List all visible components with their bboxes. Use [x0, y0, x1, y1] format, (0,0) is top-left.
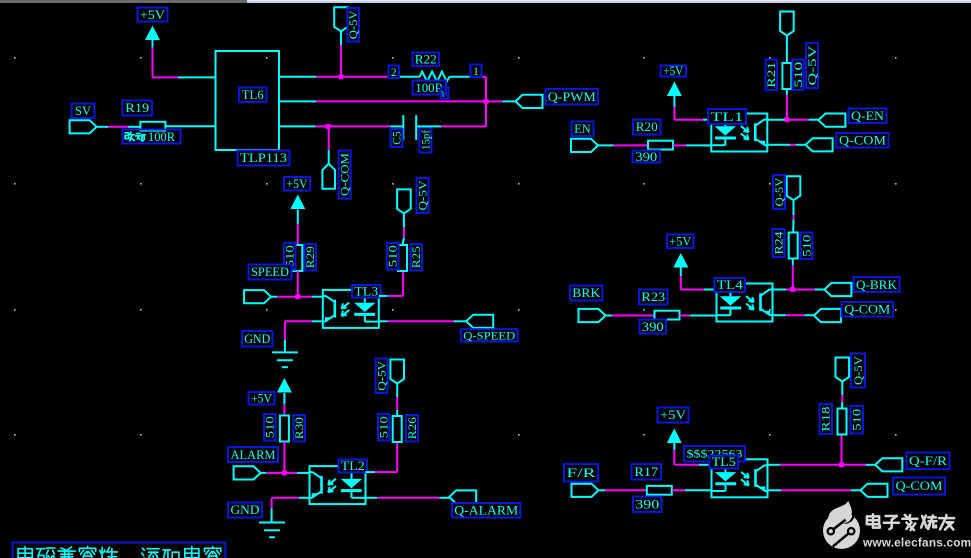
- svg-text:Q-5V: Q-5V: [853, 355, 865, 385]
- label +5V (TL3): [284, 177, 310, 191]
- junction R29: [295, 294, 300, 299]
- svg-text:+5V: +5V: [251, 392, 272, 406]
- label R30: [294, 415, 307, 442]
- port SV: [70, 120, 97, 133]
- svg-text:510: 510: [265, 416, 277, 438]
- label TLP113: [238, 151, 290, 166]
- window edge top strip: [0, 0, 247, 3]
- label TL1: [708, 109, 746, 124]
- port Q-EN: [818, 114, 845, 127]
- port BRK: [579, 309, 606, 322]
- svg-text:Q-5V: Q-5V: [774, 177, 786, 207]
- wire +5V to TL1: [674, 96, 711, 120]
- label $$$22563: [684, 446, 745, 462]
- svg-text:Q-5V: Q-5V: [376, 360, 388, 391]
- svg-text:TL5: TL5: [712, 455, 736, 469]
- label SV: [72, 104, 95, 119]
- label GND (TL3): [242, 331, 273, 347]
- svg-text:Q-5V: Q-5V: [348, 10, 360, 40]
- wire TL3 out to Q-SPEED: [379, 320, 466, 322]
- svg-text:F/R: F/R: [567, 466, 597, 480]
- label +5V (TL1): [661, 64, 687, 78]
- svg-text:R30: R30: [294, 417, 306, 439]
- resistor R25: [398, 245, 407, 271]
- label Q-5V (TL4): [773, 175, 786, 209]
- junction R30: [282, 470, 287, 475]
- resistor R20: [648, 141, 673, 150]
- label R19: [123, 101, 153, 116]
- junction R21: [784, 117, 789, 122]
- label R29: [305, 244, 318, 271]
- value 510 (R29): [284, 243, 297, 270]
- label Q-PWM: [546, 89, 599, 105]
- svg-text:+5V: +5V: [663, 64, 683, 78]
- label Q-SPEED: [461, 328, 518, 342]
- svg-text:510: 510: [379, 416, 391, 438]
- wire to C5: [328, 125, 403, 127]
- port Q-COM (TL5): [861, 484, 888, 497]
- svg-text:Q-COM: Q-COM: [844, 303, 890, 317]
- svg-text:390: 390: [642, 320, 664, 334]
- svg-text:TL2: TL2: [341, 459, 365, 473]
- power flag Q-5V (TL4): [787, 176, 801, 232]
- svg-text:510: 510: [852, 408, 864, 430]
- label +5V (TL6): [138, 8, 168, 22]
- svg-text:www.elecfans.com: www.elecfans.com: [862, 536, 971, 550]
- label R24: [773, 229, 786, 257]
- label C5: [391, 129, 404, 147]
- svg-text:Q-BRK: Q-BRK: [856, 278, 897, 292]
- junction Q-5V net: [339, 74, 344, 79]
- power +5V (TL5): [667, 429, 682, 444]
- svg-text:+5V: +5V: [140, 8, 165, 22]
- svg-text:R18: R18: [821, 406, 833, 431]
- port Q-COM (TL1): [806, 138, 833, 151]
- wire ALARM to TL2: [261, 472, 310, 474]
- label TL2: [339, 459, 368, 473]
- wire F/R to R17: [599, 489, 647, 491]
- wire R25 to TL3: [379, 271, 403, 296]
- label Q-COM (TL5): [893, 478, 945, 495]
- opto-coupler TL4: [717, 284, 773, 322]
- label R21: [766, 60, 779, 91]
- wire TL4 emitter out: [773, 314, 814, 316]
- pin 2 label: [389, 65, 400, 79]
- note 电磁兼容性 添加电容: [12, 543, 225, 558]
- label TL3: [352, 285, 381, 299]
- value 改动100R: [123, 130, 181, 145]
- wire TL4 collector out: [773, 289, 825, 291]
- label ALARM: [228, 447, 278, 462]
- svg-text:R20: R20: [636, 120, 658, 134]
- resistor R29: [293, 245, 302, 271]
- label +5V (TL4): [667, 235, 694, 249]
- junction R24: [790, 287, 795, 292]
- resistor R17: [647, 486, 672, 495]
- port Q-ALARM: [449, 490, 476, 503]
- svg-text:R21: R21: [766, 61, 778, 87]
- wire TL5 collector out: [768, 464, 876, 466]
- value 390 (R20): [633, 150, 661, 164]
- label Q-COM (TL6): [339, 151, 352, 199]
- label TL5: [710, 455, 739, 469]
- svg-text:Q-5V: Q-5V: [417, 180, 429, 211]
- svg-text:390: 390: [635, 498, 659, 512]
- power +5V (TL6): [145, 26, 160, 41]
- watermark logo elecfans: [823, 501, 860, 549]
- ground (TL3): [272, 352, 298, 367]
- svg-text:100R: 100R: [148, 130, 176, 144]
- wire TL3 to GND: [285, 321, 323, 352]
- wire R26 to TL2: [366, 442, 398, 472]
- watermark text 电子发烧友: [867, 514, 954, 530]
- resistor R21: [782, 36, 791, 120]
- label R17: [632, 464, 662, 480]
- wire +5V to R29: [297, 210, 299, 246]
- svg-text:+5V: +5V: [669, 235, 691, 249]
- wire R30 down: [283, 442, 285, 473]
- label Q-F/R: [907, 453, 950, 470]
- power flag Q-5V (TL3): [397, 189, 411, 245]
- wire TL6 pin top right: [279, 76, 341, 78]
- port Q-BRK: [824, 283, 851, 296]
- svg-text:R17: R17: [634, 465, 658, 479]
- resistor R26: [393, 416, 402, 442]
- svg-text:TL6: TL6: [242, 88, 264, 102]
- resistor R24: [789, 233, 798, 290]
- svg-text:GND: GND: [231, 503, 260, 517]
- svg-text:TL1: TL1: [711, 110, 744, 124]
- wire TL1 collector out: [767, 119, 818, 121]
- junction PWM net: [484, 99, 489, 104]
- wire TL5 emitter out: [768, 489, 861, 491]
- wire +5V to TL5: [674, 443, 711, 465]
- value 390 (R17): [633, 497, 662, 513]
- wire R19 to TL6: [166, 125, 216, 127]
- port EN: [571, 139, 598, 152]
- value 510 (R24): [801, 233, 814, 260]
- svg-text:ALARM: ALARM: [231, 448, 276, 462]
- svg-text:Q-COM: Q-COM: [340, 153, 352, 196]
- wire R22 to node 1: [449, 76, 486, 78]
- svg-text:Q-COM: Q-COM: [896, 479, 943, 493]
- value 390 (R23): [640, 320, 667, 334]
- label Q-5V (TL2): [376, 359, 389, 394]
- wire EN to R20: [598, 144, 648, 146]
- capacitor C5: [403, 115, 416, 140]
- svg-text:R22: R22: [415, 53, 437, 67]
- value 510 (R21): [793, 60, 805, 91]
- port Q-PWM: [516, 95, 543, 108]
- op-amp U TL6 body: [216, 51, 280, 150]
- label Q-5V (TL3): [417, 178, 430, 213]
- label TL6: [239, 88, 267, 103]
- svg-text:TL3: TL3: [354, 285, 378, 299]
- svg-text:R24: R24: [773, 231, 785, 254]
- wire +5V to TL6 pin: [153, 40, 216, 77]
- svg-text:15pf: 15pf: [420, 130, 432, 150]
- label R25: [411, 244, 424, 271]
- svg-text:R29: R29: [305, 246, 317, 268]
- label GND (TL2): [228, 503, 262, 518]
- wire +5V to R30: [283, 393, 285, 416]
- junction Q-COM net: [326, 124, 331, 129]
- label R26: [406, 415, 419, 442]
- resistor R23: [655, 311, 680, 320]
- wire +5V to TL4: [681, 268, 717, 290]
- wire node1 vertical: [485, 77, 487, 127]
- wire R20 to TL1: [673, 144, 711, 146]
- label Q-5V (R21): [806, 43, 819, 88]
- svg-text:390: 390: [635, 150, 657, 164]
- opto-coupler TL3: [323, 290, 379, 328]
- svg-text:+5V: +5V: [287, 177, 308, 191]
- svg-text:TLP113: TLP113: [240, 151, 287, 165]
- wire TL2 to GND: [272, 498, 310, 522]
- power +5V (TL1): [667, 82, 682, 97]
- svg-text:R23: R23: [641, 290, 665, 304]
- resistor R19: [140, 122, 165, 131]
- svg-text:510: 510: [793, 61, 805, 87]
- svg-text:TL4: TL4: [717, 278, 744, 292]
- value 510 (R26): [378, 414, 391, 441]
- power +5V (TL3): [290, 195, 305, 210]
- svg-text:Q-F/R: Q-F/R: [909, 454, 948, 468]
- wire TL6 bottom pin: [279, 125, 328, 127]
- svg-text:BRK: BRK: [572, 286, 600, 300]
- label R23: [639, 290, 668, 305]
- svg-text:R26: R26: [407, 417, 419, 439]
- label Q-COM (TL1): [837, 133, 889, 148]
- power flag Q-5V (R21): [780, 12, 794, 36]
- label Q-5V (top left): [347, 8, 360, 42]
- label SPEED: [249, 265, 292, 280]
- label TL4: [715, 278, 746, 292]
- wire SV to R19: [97, 126, 141, 128]
- svg-text:EN: EN: [574, 122, 591, 136]
- label R20: [633, 120, 661, 135]
- svg-text:Q-PWM: Q-PWM: [548, 90, 596, 104]
- label R22: [413, 53, 440, 67]
- power +5V (TL4): [673, 253, 688, 268]
- svg-text:+5V: +5V: [660, 408, 686, 422]
- label +5V (TL2): [249, 392, 275, 406]
- label EN: [572, 122, 594, 137]
- wire C5 to node1: [416, 125, 486, 127]
- label Q-EN: [849, 109, 887, 124]
- svg-text:1: 1: [473, 64, 479, 78]
- label R18: [820, 404, 833, 434]
- wire TL6 middle pin to Q-PWM: [279, 100, 516, 102]
- port ALARM: [234, 466, 261, 479]
- port Q-F/R: [875, 458, 902, 471]
- svg-text:510: 510: [388, 245, 400, 267]
- wire R29 down: [297, 271, 299, 297]
- power flag Q-5V (TL2): [390, 360, 404, 417]
- label Q-ALARM: [452, 503, 521, 518]
- label Q-COM (TL4): [842, 302, 894, 317]
- svg-text:2: 2: [391, 65, 397, 79]
- opto-coupler TL2: [310, 466, 366, 504]
- svg-text:SV: SV: [75, 104, 91, 118]
- label BRK: [570, 286, 603, 301]
- resistor R18: [838, 409, 847, 465]
- svg-text:SPEED: SPEED: [251, 265, 289, 279]
- wire BRK to R23: [606, 315, 655, 317]
- opto-coupler TL1: [711, 114, 767, 152]
- svg-text:GND: GND: [244, 332, 270, 346]
- svg-text:Q-SPEED: Q-SPEED: [463, 328, 515, 342]
- wire to R22: [341, 76, 420, 78]
- power +5V (TL2): [277, 378, 292, 393]
- label F/R: [564, 464, 598, 482]
- port SPEED: [244, 290, 271, 303]
- power flag Q-COM (TL6): [322, 126, 335, 188]
- resistor R30: [280, 416, 289, 442]
- label Q-5V (TL5): [851, 354, 865, 388]
- wire R17 to TL5: [672, 489, 712, 491]
- svg-text:C5: C5: [391, 131, 403, 145]
- wire TL2 out to Q-ALARM: [366, 497, 450, 499]
- svg-text:Q-ALARM: Q-ALARM: [454, 504, 518, 518]
- port F/R: [572, 484, 599, 497]
- svg-text:R19: R19: [125, 101, 149, 115]
- resistor R22 zigzag: [420, 72, 450, 82]
- svg-text:R25: R25: [411, 246, 423, 268]
- junction R18: [839, 462, 844, 467]
- label Q-BRK: [854, 277, 900, 292]
- pin 1 label: [471, 64, 482, 78]
- power flag Q-5V (top left): [334, 7, 348, 77]
- value 510 (R18): [851, 406, 864, 434]
- power flag Q-5V (TL5): [836, 358, 850, 409]
- opto-coupler TL5: [712, 459, 768, 497]
- label +5V (TL5): [658, 408, 689, 423]
- port Q-SPEED: [466, 315, 493, 328]
- value 100R: [413, 81, 449, 100]
- wire TL1 emitter out: [767, 144, 805, 146]
- svg-text:Q-5V: Q-5V: [807, 44, 819, 85]
- wire SPEED to TL3: [271, 296, 323, 298]
- value 15pf: [420, 128, 433, 153]
- value 510 (R30): [264, 414, 277, 441]
- svg-text:510: 510: [801, 234, 813, 256]
- ground (TL2): [259, 523, 285, 538]
- wire R23 to TL4: [680, 315, 717, 317]
- svg-text:Q-COM: Q-COM: [839, 134, 886, 148]
- port Q-COM (TL4): [814, 309, 841, 322]
- svg-text:Q-EN: Q-EN: [851, 109, 884, 123]
- value 510 (R25): [387, 243, 400, 270]
- grid dots: [14, 57, 897, 436]
